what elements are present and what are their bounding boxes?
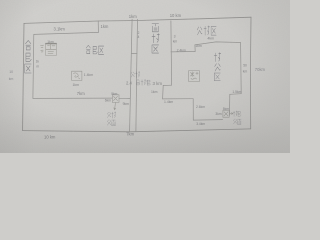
wire inner left edge bbox=[32, 34, 35, 98]
vertical text 贫民区 left edge bbox=[25, 41, 31, 74]
legend box A bbox=[41, 43, 57, 55]
arrow to aquarium text bbox=[114, 103, 116, 110]
outer map boundary bbox=[23, 17, 251, 132]
wire vertical V1 bbox=[170, 21, 173, 86]
wire inner bottom edge bbox=[33, 97, 112, 99]
wire outer right edge bbox=[249, 17, 252, 129]
wire vertical V4 bbox=[192, 99, 194, 120]
legend box A side marks bbox=[41, 45, 44, 52]
vertical text 高楼区 bbox=[152, 24, 159, 53]
wire vertical V5 bbox=[162, 86, 165, 99]
amusement icon box C bbox=[189, 71, 200, 82]
wire outer left edge bbox=[23, 23, 24, 130]
aquarium box bbox=[112, 95, 119, 110]
arrow to dino text bbox=[230, 113, 233, 115]
slum district inner rectangle bbox=[33, 21, 130, 99]
fountain box B bbox=[72, 71, 82, 80]
wire road right line bbox=[136, 19, 138, 131]
text 公路 on road bbox=[131, 72, 140, 78]
wire horizontal H4 bbox=[193, 119, 222, 122]
wire inner step up bbox=[97, 21, 99, 32]
wire outer top edge bbox=[24, 17, 251, 23]
wire box-to-road segment bbox=[119, 97, 130, 99]
right district boundary steps bbox=[163, 21, 242, 120]
text 恐龙公园 bbox=[233, 111, 241, 124]
paper grain bbox=[0, 0, 290, 153]
wire road left line bbox=[130, 19, 133, 131]
text 贫民区 center of slum district bbox=[86, 45, 104, 54]
km labels (latin text) bbox=[9, 13, 266, 140]
wire outer bottom edge bbox=[23, 129, 251, 132]
text 水族公园 bbox=[107, 112, 115, 126]
road 公路 center double line bbox=[130, 19, 138, 131]
wire horizontal H3 bbox=[230, 93, 241, 96]
wire vertical V2 bbox=[240, 43, 243, 94]
wire horizontal H6 bbox=[163, 84, 171, 86]
text 2.4-3km near road junction bbox=[136, 80, 150, 86]
wire horizontal H2 bbox=[195, 42, 241, 45]
wire vertical V3 bbox=[229, 94, 231, 115]
wire horizontal H5 bbox=[163, 98, 194, 100]
wire horizontal H1 bbox=[171, 51, 195, 53]
wire step up V bbox=[194, 45, 196, 52]
text 乡村区 rural bbox=[197, 26, 216, 35]
paper background bbox=[0, 0, 290, 153]
wire road tick bbox=[131, 52, 137, 54]
dino park box bbox=[223, 110, 233, 117]
wire inner top edge bbox=[34, 32, 99, 34]
vertical text 游乐区 bbox=[214, 53, 221, 81]
